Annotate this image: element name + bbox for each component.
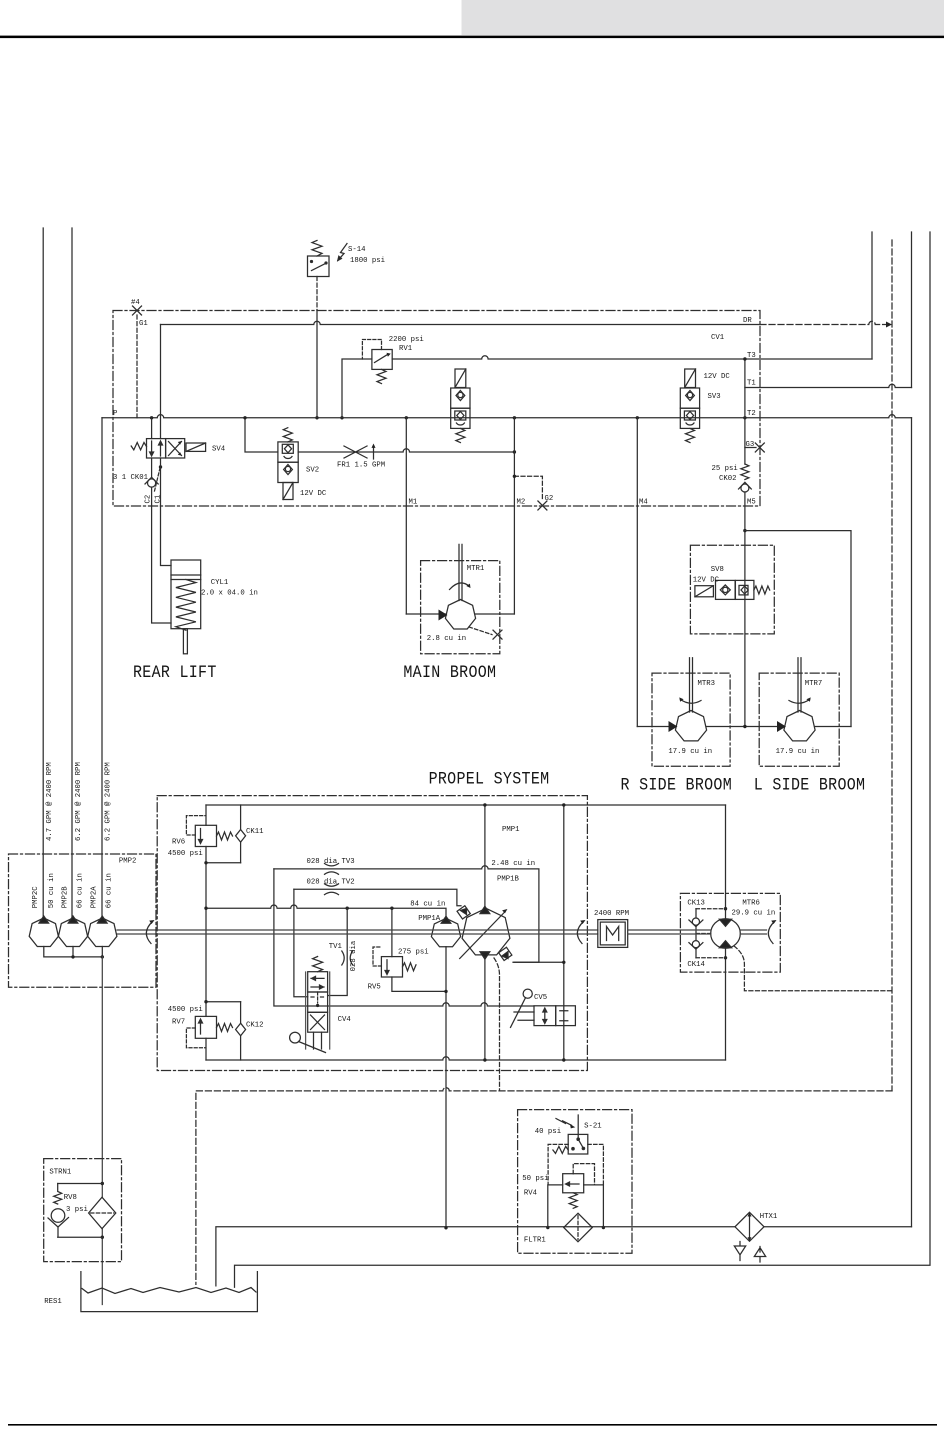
relief valve RV4 pilot dashed (573, 1164, 594, 1185)
solenoid valve SV4 feed (151, 418, 153, 439)
RV7 spring (217, 1024, 233, 1032)
svg-text:SV8: SV8 (711, 566, 724, 574)
svg-text:PMP2B: PMP2B (61, 886, 69, 909)
unnamed cushion valve box1 (451, 388, 470, 408)
wire RV5 outlet (392, 977, 446, 991)
wire MTR7 arrow (777, 721, 786, 732)
svg-text:028 dia TV2: 028 dia TV2 (307, 878, 355, 886)
svg-text:C1: C1 (154, 494, 162, 503)
relief valve RV6 body (195, 825, 216, 846)
wire TV2 left drop to CV4 (294, 889, 308, 997)
wire pump PMP2C output vertical x=43 (42, 228, 44, 918)
svg-text:12V DC: 12V DC (704, 373, 731, 381)
STRN1 dash-dot box (44, 1159, 122, 1262)
pump PMP1A body (431, 918, 460, 947)
motor MTR1 shaft (459, 544, 462, 600)
wire RV1 inlet (342, 359, 372, 418)
svg-text:CV5: CV5 (534, 994, 547, 1002)
pressure switch S-21 stub (577, 1115, 579, 1139)
PROPEL SYSTEM outer dash-dot box (157, 796, 587, 1071)
MTR1 case drain dashed (469, 627, 492, 635)
SV2 spring top (283, 428, 292, 442)
wire PMP1B bottom to B line (484, 957, 486, 1060)
svg-text:PMP2A: PMP2A (91, 886, 99, 909)
CK13/CK14 mid tap dashed (696, 933, 711, 935)
svg-text:1800 psi: 1800 psi (350, 257, 386, 265)
RV8 spring (54, 1184, 62, 1205)
wire PMP2 common suction (44, 947, 103, 957)
reservoir RES1 walls (81, 1272, 258, 1312)
svg-text:17.9 cu in: 17.9 cu in (668, 748, 712, 756)
check valve CK13 (695, 909, 697, 958)
FLTR1 dash-dot box (518, 1110, 632, 1254)
wire loop top line A (206, 804, 726, 806)
pump PMP1B body (462, 908, 510, 955)
pressure switch S-21 body (568, 1134, 588, 1154)
svg-text:2.48 cu in: 2.48 cu in (491, 860, 535, 868)
svg-text:PMP1B: PMP1B (497, 876, 520, 884)
R SIDE BROOM dash-dot box (652, 673, 730, 766)
wire RV1 outlet / T3 line (392, 356, 872, 359)
svg-text:6.2 GPM @ 2400 RPM: 6.2 GPM @ 2400 RPM (75, 762, 83, 841)
wire PMP1A suction down (445, 947, 447, 1228)
svg-text:STRN1: STRN1 (49, 1169, 72, 1177)
S-21 spring (553, 1146, 568, 1153)
S-21 sense dashed right (588, 1144, 604, 1185)
wire M5 branch to L broom (745, 531, 851, 727)
motor MTR3 shaft (690, 658, 693, 712)
SV4 solenoid (186, 443, 206, 451)
svg-text:T3: T3 (747, 352, 756, 360)
CV5 left box (534, 1006, 556, 1026)
motor MTR1 body (445, 600, 475, 630)
wire loop right rail (725, 805, 727, 1060)
wire servo port line to B (513, 961, 564, 963)
wire G1 dashed down to P (136, 315, 138, 418)
svg-text:M5: M5 (747, 499, 756, 507)
svg-text:PMP2: PMP2 (119, 858, 137, 866)
wire C1 to cylinder (161, 506, 172, 566)
CYL1 piston (171, 575, 201, 580)
strainer STRN1 element (89, 1197, 116, 1229)
wire loop left rail mid (205, 847, 207, 1017)
wire TV1 drop (328, 908, 348, 995)
svg-text:T2: T2 (747, 410, 756, 418)
motor MTR7 shaft (798, 658, 801, 712)
CV5 stubs (514, 1012, 534, 1020)
svg-text:12V DC: 12V DC (693, 577, 720, 585)
svg-text:PMP2C: PMP2C (32, 886, 40, 909)
wire DR line (161, 321, 761, 324)
RV4 spring (569, 1193, 577, 1209)
S-14 lightning arrow (338, 244, 347, 261)
svg-text:MTR1: MTR1 (467, 565, 485, 573)
svg-text:275 psi: 275 psi (398, 949, 429, 957)
SV2 body box2 (278, 462, 298, 482)
node T2/CV1 rail (743, 416, 746, 419)
svg-text:66 cu in: 66 cu in (76, 873, 84, 908)
svg-text:SV3: SV3 (708, 393, 721, 401)
check valve CK11 (240, 805, 242, 863)
wire T1 line (745, 384, 912, 387)
orifice TV3 (325, 864, 339, 875)
motor MTR3 rotation arrow (681, 700, 702, 704)
MTR6 dash-dot box (680, 893, 780, 972)
svg-text:T1: T1 (747, 380, 756, 388)
motor MTR7 rotation arrow (789, 700, 810, 704)
wire CK11 to rail (206, 862, 241, 864)
PMP1B case drain dashed (494, 958, 500, 1091)
SV8 dash-dot box (690, 545, 774, 634)
motor MTR3 body (675, 711, 706, 741)
PMP1B bottom port triangle (480, 952, 490, 959)
svg-text:HTX1: HTX1 (760, 1213, 778, 1221)
wire P / T2 main line (102, 415, 912, 418)
bottom rule (8, 1424, 937, 1426)
pressure switch S-14 body (308, 256, 330, 277)
svg-text:2200 psi: 2200 psi (389, 336, 425, 344)
solenoid valve SV3 box1 (680, 388, 699, 408)
wire C1 below SV4 (160, 458, 162, 506)
grey header band (462, 0, 944, 35)
dashed drain rail x=892 (891, 240, 893, 1091)
wire C2 to cylinder (152, 506, 171, 623)
wire TV2 line (294, 889, 461, 906)
CYL1 spring (176, 580, 196, 631)
wire T1 up rail x=911.5 (911, 232, 913, 388)
svg-text:4500 psi: 4500 psi (168, 1006, 204, 1014)
relief valve RV1 spring (377, 369, 386, 383)
svg-text:028 dia TV3: 028 dia TV3 (307, 858, 355, 866)
pump PMP2C body (29, 918, 58, 947)
relief valve RV4 body (563, 1174, 584, 1193)
svg-text:3 1 CK01: 3 1 CK01 (113, 474, 149, 482)
wire loop left rail upper (205, 805, 207, 825)
svg-text:#4: #4 (131, 299, 140, 307)
svg-text:2.8 cu in: 2.8 cu in (427, 635, 466, 643)
motor MTR6 body (711, 919, 741, 949)
RV6 spring (217, 832, 233, 840)
cylinder CYL1 body (171, 560, 201, 629)
heat exchanger HTX1 body (735, 1212, 764, 1241)
motor MTR7 body (784, 711, 815, 741)
solenoid valve SV3 box2 (680, 408, 699, 428)
svg-text:L SIDE BROOM: L SIDE BROOM (754, 774, 866, 794)
svg-text:CK14: CK14 (687, 961, 705, 969)
SV2 body box1 (278, 442, 298, 462)
CV4 stem and lever (314, 1032, 322, 1049)
unnamed valve spring (456, 428, 465, 442)
HTX1 air flow symbols (734, 1242, 745, 1261)
relief valve RV5 body (381, 957, 402, 977)
wire MTR1 to M2 (476, 613, 515, 615)
check valve CK13/CK14 bridge dashed top (696, 908, 726, 910)
wire S-14 sense dashed (316, 277, 318, 311)
wire RV4 bypass right (584, 1185, 604, 1228)
svg-text:C2: C2 (145, 495, 153, 504)
wire TV3 line (274, 866, 539, 963)
CV4 spring top (313, 957, 323, 972)
svg-text:FR1 1.5 GPM: FR1 1.5 GPM (337, 462, 385, 470)
svg-text:G3: G3 (746, 441, 755, 449)
svg-text:SV4: SV4 (212, 446, 226, 454)
MAIN BROOM dash-dot box (421, 561, 500, 654)
relief valve RV7 pilot dashed (186, 1028, 206, 1048)
wire M4 to MTR3 (637, 726, 675, 728)
wire return line through filter (216, 1227, 912, 1286)
wire DR branch vertical x=160.5 (160, 325, 162, 439)
wire MTR7 to right riser (815, 726, 851, 728)
svg-text:17.9 cu in: 17.9 cu in (776, 748, 820, 756)
svg-text:S-21: S-21 (584, 1123, 602, 1131)
wire CV1 internal rail T3-T1-T2-M5 (744, 359, 746, 464)
check valve CK12 (240, 1002, 242, 1060)
svg-text:3 psi: 3 psi (66, 1206, 89, 1214)
svg-text:CV1: CV1 (711, 334, 725, 342)
CV5 right box (556, 1006, 576, 1026)
check valve CK02 (739, 482, 752, 489)
svg-text:CK11: CK11 (246, 828, 264, 836)
wire vertical x=563.8 top-line to B-line (563, 805, 565, 1060)
svg-text:12V DC: 12V DC (300, 490, 327, 498)
svg-text:2.0 x 04.0 in: 2.0 x 04.0 in (201, 590, 258, 598)
wire suction down to strainer (101, 957, 103, 1305)
solenoid valve SV3 solenoid (685, 369, 696, 388)
svg-text:RES1: RES1 (44, 1298, 62, 1306)
test point #4 G1 (133, 306, 142, 315)
solenoid valve SV4 body left box (147, 439, 166, 458)
S-21 lightning arrow (556, 1119, 572, 1126)
svg-text:TV1: TV1 (329, 943, 343, 951)
svg-text:028 dia: 028 dia (350, 940, 358, 971)
towing valve CV5 knob (523, 989, 532, 998)
svg-text:PMP1: PMP1 (502, 826, 520, 834)
CYL1 rod (183, 629, 187, 654)
relief valve RV5 feed (391, 908, 393, 956)
filter FLTR1 element (564, 1213, 593, 1242)
pump PMP2B body (58, 918, 87, 947)
unnamed cushion valve box2 (451, 408, 470, 428)
svg-text:R SIDE BROOM: R SIDE BROOM (621, 774, 733, 794)
wire MTR3 to MTR7 (707, 726, 784, 728)
test point G3 (745, 447, 756, 449)
pump PMP1B feed from top line (484, 805, 486, 906)
svg-text:REAR LIFT: REAR LIFT (133, 662, 217, 682)
solenoid valve SV8 solenoid (695, 586, 714, 597)
check valve CK14 (692, 941, 699, 948)
wire TV3 left drop to CV5 line (274, 869, 534, 1006)
orifice TV2 (325, 884, 339, 895)
S-14 contact (312, 263, 327, 271)
electric motor M body (598, 920, 628, 948)
bypass RV8 loop top (58, 1183, 103, 1185)
svg-text:MAIN BROOM: MAIN BROOM (403, 662, 496, 682)
shaft rotation arrow at M (577, 922, 583, 944)
wire M5 down through SV8 (744, 531, 746, 727)
svg-text:25 psi: 25 psi (712, 465, 739, 473)
svg-text:P: P (113, 410, 117, 418)
svg-text:CV4: CV4 (338, 1016, 352, 1024)
SV4 spring (131, 443, 146, 450)
solenoid valve SV4 body right box (166, 439, 185, 458)
MTR6 rotation arrow (768, 922, 774, 944)
wire S-14 sense solid to P line (316, 310, 318, 418)
svg-text:2400 RPM: 2400 RPM (594, 910, 629, 918)
svg-text:RV5: RV5 (368, 984, 381, 992)
svg-text:M2: M2 (517, 499, 526, 507)
right return rail x=930 (235, 232, 931, 1287)
node P/M4 (636, 416, 639, 419)
DR dashed return to tank (196, 1088, 892, 1285)
SV3 spring (686, 428, 695, 442)
svg-text:4500 psi: 4500 psi (168, 850, 204, 858)
node P/M2 (513, 416, 516, 419)
node strainer top (101, 1182, 104, 1185)
svg-text:MTR7: MTR7 (805, 680, 823, 688)
pump PMP2A body (88, 918, 117, 947)
wire T3 up right rail x=872 (871, 232, 873, 359)
node P/SV4 (150, 416, 153, 419)
MTR6 case drain dashed (734, 946, 892, 991)
PMP1A outlet triangle (441, 916, 451, 923)
svg-text:DR: DR (743, 317, 752, 325)
svg-text:4.7 GPM @ 2400 RPM: 4.7 GPM @ 2400 RPM (46, 762, 54, 841)
SV2 solenoid (283, 483, 293, 500)
L SIDE BROOM dash-dot box (759, 673, 839, 766)
CV4 middle box (308, 992, 328, 1012)
CK13/CK14 bridge dashed bottom (696, 957, 726, 959)
svg-text:50 cu in: 50 cu in (48, 873, 56, 908)
wire pump PMP2B output vertical x=72 (71, 228, 73, 918)
wire charge line (206, 905, 446, 917)
svg-text:RV8: RV8 (64, 1194, 77, 1202)
svg-text:FLTR1: FLTR1 (524, 1237, 547, 1245)
manifold block boundary (dash-dot) (113, 311, 760, 507)
svg-text:CK13: CK13 (687, 900, 705, 908)
svg-text:M4: M4 (639, 499, 648, 507)
svg-text:RV6: RV6 (172, 839, 185, 847)
relief valve RV7 body (195, 1016, 216, 1038)
relief valve RV1 pilot dashed (362, 340, 381, 360)
svg-text:50 psi: 50 psi (522, 1175, 549, 1183)
svg-text:SV2: SV2 (306, 467, 319, 475)
relief valve RV5 pilot dashed (373, 947, 381, 966)
CV4 top box (308, 972, 328, 992)
svg-text:MTR6: MTR6 (742, 900, 760, 908)
svg-text:29.9 cu in: 29.9 cu in (732, 910, 776, 918)
svg-text:CK02: CK02 (719, 475, 737, 483)
solenoid valve SV8 box1 (716, 580, 736, 599)
CK01 pilot dashed arrow (155, 468, 161, 491)
svg-text:M1: M1 (409, 499, 418, 507)
pressure switch S-14 spring (312, 240, 322, 256)
mechanical shaft PMP2 to M (117, 930, 598, 934)
relief valve RV1 body (372, 350, 392, 370)
flow control FR1 (344, 446, 367, 458)
check valve CK02 spring (741, 464, 749, 480)
manual valve CV4 rails (306, 972, 330, 1049)
wire SV2 to FR1 line (298, 449, 514, 452)
PMP1B top port triangle (480, 906, 490, 913)
orifice TV1 (342, 951, 353, 965)
solenoid valve SV8 box2 (735, 580, 754, 599)
top rule (0, 36, 944, 39)
node P/M1 (405, 416, 408, 419)
wire DR dashed to right rail (760, 321, 886, 324)
svg-text:PMP1A: PMP1A (418, 915, 441, 923)
wire RV4 bypass left (548, 1185, 563, 1228)
test point G2 dashed (514, 476, 542, 501)
shaft rotation arrow left (146, 922, 152, 944)
svg-text:G2: G2 (545, 495, 554, 503)
wire M1 vertical (405, 418, 407, 614)
wire M2 vertical (513, 418, 515, 614)
S-21 sense dashed left (548, 1144, 568, 1185)
check valve CK01 (151, 458, 153, 477)
svg-text:66 cu in: 66 cu in (106, 873, 114, 908)
svg-text:S-14: S-14 (348, 246, 366, 254)
PMP1B servo port upper-left (457, 906, 470, 919)
svg-text:CK12: CK12 (246, 1022, 264, 1030)
solenoid valve SV2 feed (245, 418, 278, 452)
check valve RV8 (51, 1209, 65, 1223)
node suction tee (444, 1226, 447, 1229)
svg-text:G1: G1 (139, 320, 148, 328)
wire T2 down rail x=911.5 (911, 418, 913, 1227)
wire P line vertical x=102 down to PMP2A (101, 418, 103, 918)
svg-text:84 cu in: 84 cu in (410, 901, 445, 909)
wire CK12 to rail (206, 1001, 241, 1003)
CV4 bottom box (308, 1012, 328, 1032)
wire loop left rail lower (205, 1038, 207, 1060)
PMP1B variable displacement arrow (460, 912, 505, 958)
wire M1 to MTR1 (406, 613, 445, 615)
PMP1B servo port lower-right (499, 947, 512, 960)
RES1 fluid surface (82, 1288, 256, 1294)
unnamed cushion valve solenoid (455, 369, 466, 388)
node S-14/P (315, 416, 318, 419)
svg-text:40 psi: 40 psi (535, 1128, 562, 1136)
wire M4 vertical (636, 418, 638, 727)
node strainer bottom (101, 1236, 104, 1239)
svg-text:RV7: RV7 (172, 1019, 185, 1027)
svg-text:RV4: RV4 (524, 1190, 538, 1198)
RV5 spring (403, 963, 417, 971)
relief valve RV6 pilot dashed (186, 816, 206, 835)
SV8 spring (754, 586, 770, 594)
wire loop bottom line B (206, 1057, 726, 1060)
svg-text:RV1: RV1 (399, 345, 413, 353)
svg-text:PROPEL SYSTEM: PROPEL SYSTEM (429, 768, 550, 788)
svg-text:CYL1: CYL1 (211, 579, 229, 587)
svg-text:MTR3: MTR3 (698, 680, 716, 688)
PMP2 dash-dot box (9, 854, 157, 987)
motor MTR1 rotation arrow (450, 583, 470, 590)
MTR6 shaft (628, 930, 711, 934)
svg-text:6.2 GPM @ 2400 RPM: 6.2 GPM @ 2400 RPM (105, 762, 113, 841)
